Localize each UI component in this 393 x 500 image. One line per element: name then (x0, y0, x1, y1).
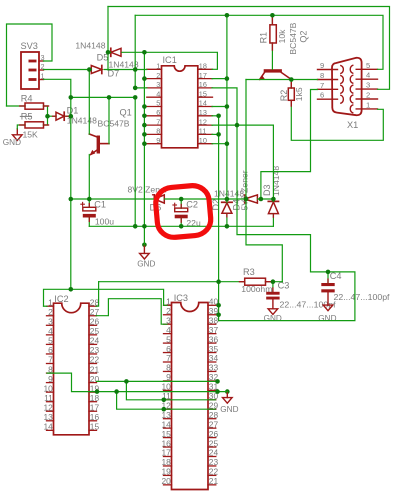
IC3 pin 22 (208, 474, 216, 476)
svg-text:SV3: SV3 (21, 41, 38, 51)
svg-text:22...47...100pf: 22...47...100pf (334, 292, 391, 302)
wire D3 bottom lead (272, 214, 274, 227)
junction at (226.9,226.3) (225, 224, 230, 229)
svg-text:7: 7 (48, 355, 53, 365)
wire C3 leads (272, 282, 274, 292)
wire Q1 emitter down to 8V2 rail (88, 155, 90, 200)
svg-text:17: 17 (199, 71, 207, 80)
IC2 pin 19 (89, 391, 97, 393)
IC3 pin 9 (164, 380, 172, 382)
IC3 pin 13 (164, 418, 172, 420)
wire W2 IC2 pin 20 row to IC3 pin 32 (97, 380, 218, 382)
red lead stubs of R1 (271, 18, 273, 25)
resistor R1 (270, 25, 276, 43)
IC1 pin 17 (198, 78, 213, 80)
IC3 pin 8 (164, 370, 172, 372)
IC1 pin 2 (147, 78, 162, 80)
IC3 pin 6 (164, 352, 172, 354)
IC2 pin 3 (47, 324, 54, 326)
svg-text:R2: R2 (279, 90, 289, 102)
junction at (218.6,134.4) (216, 132, 221, 137)
wire D3 feed vertical (272, 125, 274, 201)
wire IC2 pin 1 feed and row to IC3 pin 1 (44, 289, 71, 306)
IC2 pin 15 (89, 429, 97, 431)
svg-text:13: 13 (199, 108, 207, 117)
X1 pin 1 (356, 108, 377, 110)
wire IC1 pin 17 stub link (212, 78, 227, 80)
IC1 pin 4 (147, 96, 162, 98)
junction at (144.4,52.3) (142, 50, 147, 55)
junction at (70.8,97.4) (69, 95, 74, 100)
X1 pin 5 (356, 68, 377, 70)
capacitor C4 (321, 283, 334, 286)
IC1 pin 8 (147, 133, 162, 135)
IC3 pin 24 (208, 456, 216, 458)
junction at (144.4,125.1) (142, 123, 147, 128)
svg-text:1: 1 (156, 62, 160, 71)
svg-text:C1: C1 (94, 199, 106, 209)
wire D2 bottom lead (226, 213, 228, 226)
svg-text:C2: C2 (186, 200, 198, 210)
resistor R3 (245, 278, 266, 285)
diode D5 (110, 48, 112, 56)
resistor R2 (288, 88, 294, 100)
IC3 pin 26 (208, 437, 216, 439)
svg-text:5: 5 (156, 99, 160, 108)
junction at (144.4,115.8) (142, 114, 147, 119)
IC2 pin 1 (47, 305, 54, 307)
wire Q1 base from D7 row (88, 70, 90, 135)
junction at (218.6,305.3) (216, 303, 221, 308)
IC1 pin 3 (147, 87, 162, 89)
IC3 pin 28 (208, 418, 216, 420)
IC1 pin 1 (147, 68, 162, 70)
red lead stubs of R5 (20, 124, 25, 126)
svg-text:8: 8 (156, 127, 160, 136)
ground under bus B (142, 243, 147, 248)
X1 pin 2 (356, 98, 377, 100)
svg-text:5: 5 (48, 336, 53, 346)
diode D4 zener (244, 195, 246, 203)
wire SV3 pin 1 long vertical to IC2 pin 1 node (44, 79, 71, 289)
svg-text:D1: D1 (67, 105, 79, 115)
red lead stubs of R2 (290, 83, 292, 89)
junction at (163.8,409.2) (162, 407, 167, 412)
wire R2 leads and loop to X1 pin 1 (290, 80, 292, 89)
junction at (108,52.3) (106, 50, 111, 55)
diode D3 (268, 200, 278, 202)
wire C4 leads (327, 272, 329, 283)
svg-text:17: 17 (90, 402, 100, 412)
junction at (181.2,226.3) (179, 224, 184, 229)
SV3 pin 1 (29, 78, 37, 81)
wire ground row under C1 C2 D2 D3 (89, 225, 273, 227)
svg-text:9: 9 (48, 374, 53, 384)
IC IC1 body (162, 66, 198, 148)
IC2 pin 5 (47, 343, 54, 345)
wire node row at y=97 from D1 net to mid vertical (71, 96, 135, 98)
diode D2 (222, 201, 232, 203)
svg-text:23: 23 (90, 345, 100, 355)
IC3 pin 40 (208, 304, 216, 306)
IC2 pin 11 (47, 401, 54, 403)
diode D7 (91, 66, 102, 74)
svg-text:8: 8 (320, 71, 324, 80)
IC3 pin 27 (208, 427, 216, 429)
junction at (218.6,314.8) (216, 313, 221, 318)
wire ground bus B vertical (143, 52, 145, 245)
wire IC2 pin 27 route to IC3 pin 3 (96, 299, 167, 325)
wire second top rail to X1 pin 5 (135, 15, 383, 69)
red lead stubs of C1 (88, 204, 90, 208)
IC1 pin 9 (147, 143, 162, 145)
wire bus A vertical down to IC1 pin 3 (135, 15, 147, 88)
IC3 pin 19 (164, 474, 172, 476)
wire V_b vertical from top rail to D2 (226, 15, 228, 202)
IC1 pin 18 (198, 68, 213, 70)
svg-text:1N4148: 1N4148 (75, 41, 105, 51)
IC2 pin 27 (89, 315, 97, 317)
svg-text:3: 3 (366, 81, 370, 90)
svg-text:2: 2 (156, 71, 160, 80)
wire IC1 pin 11 stub link (212, 133, 219, 135)
IC3 pin 31 (208, 389, 216, 391)
svg-text:16: 16 (199, 80, 207, 89)
wire IC1 pin 13 stub link (212, 115, 219, 117)
junction at (70.8,289.3) (69, 287, 74, 292)
IC2 pin 8 (47, 372, 54, 374)
junction at (226.9,78.6) (225, 76, 230, 81)
IC3 pin 33 (208, 370, 216, 372)
svg-text:6: 6 (48, 345, 53, 355)
svg-text:15: 15 (199, 89, 207, 98)
IC3 pin 12 (164, 408, 172, 410)
svg-text:D5: D5 (97, 53, 109, 63)
junction at (70.8,116.2) (69, 114, 74, 119)
IC3 pin 5 (164, 342, 172, 344)
red lead stub of C3 top (272, 288, 274, 292)
wire top rail from upper-left corner to X1 pin 3 (108, 7, 390, 90)
svg-text:GND: GND (220, 405, 238, 414)
junction at (135.2,97.4) (133, 95, 138, 100)
junction at (89.3,69.5) (87, 67, 92, 72)
svg-text:3: 3 (156, 80, 160, 89)
ground under C3 (272, 299, 274, 308)
svg-text:IC2: IC2 (54, 294, 68, 304)
diode D1 (56, 112, 64, 120)
junction at (217.5,391.6) (215, 389, 220, 394)
transistor Q2 (264, 69, 282, 72)
wire R4 leads and R4-R5-D1 junction (7, 105, 26, 107)
junction at (291.3,79.5) (289, 77, 294, 82)
IC IC2 body (54, 303, 90, 435)
svg-text:11: 11 (44, 393, 53, 403)
wire V_r vertical from bottom rail up to IC1 pin 13 (218, 116, 220, 321)
connector SV3 (21, 52, 39, 89)
IC2 pin 23 (89, 353, 97, 355)
IC1 pin 7 (147, 124, 162, 126)
svg-text:2: 2 (366, 91, 370, 100)
IC3 pin 32 (208, 380, 216, 382)
junction at (226.9,143.7) (225, 141, 230, 146)
IC1 pin 15 (198, 96, 213, 98)
svg-text:18: 18 (199, 62, 207, 71)
svg-text:20: 20 (161, 476, 171, 486)
red lead stubs of R3 (240, 281, 245, 283)
wire IC1 pin 10 stub link (212, 143, 227, 145)
X1 pin 3 (356, 88, 377, 90)
svg-text:1k5: 1k5 (294, 87, 304, 101)
svg-text:10: 10 (43, 383, 53, 393)
IC2 pin 18 (89, 401, 97, 403)
svg-text:GND: GND (318, 314, 336, 323)
IC1 pin 12 (198, 124, 213, 126)
wire Q2 emitter row to X1 pin 8 (246, 79, 318, 81)
junction at (260.9,199) (259, 197, 264, 202)
wire mid vertical down to ground row (134, 97, 136, 226)
svg-text:12: 12 (43, 402, 53, 412)
svg-text:GND: GND (137, 260, 155, 269)
capacitor C1 electrolytic (83, 207, 96, 211)
svg-text:7: 7 (320, 81, 324, 90)
X1 pin 7 (318, 88, 338, 90)
IC1 pin 11 (198, 133, 213, 135)
SV3 pin 2 (29, 69, 37, 72)
transistor Q1 (97, 136, 100, 154)
IC3 pin 25 (208, 446, 216, 448)
svg-text:R1: R1 (259, 32, 269, 44)
svg-text:12: 12 (199, 117, 207, 126)
IC2 pin 28 (89, 305, 97, 307)
svg-text:3: 3 (48, 317, 53, 327)
svg-text:10k: 10k (277, 29, 287, 44)
junction at (144.4,143.7) (142, 141, 147, 146)
IC3 pin 35 (208, 352, 216, 354)
IC3 pin 16 (164, 446, 172, 448)
IC2 pin 14 (47, 429, 54, 431)
wire SV3 pin2 / D7 row to IC1 pin 1 (44, 69, 92, 71)
svg-text:1N4148: 1N4148 (271, 166, 281, 196)
IC3 pin 17 (164, 456, 172, 458)
zener diode D6 (153, 195, 155, 203)
svg-text:25: 25 (90, 326, 100, 336)
red lead stubs of D3 (272, 214, 274, 218)
IC3 pin 2 (164, 314, 172, 316)
wire IC1 pin 16 route down and right loop to C4 and bottom rail (212, 88, 355, 321)
red annotation circle around C2 (154, 184, 212, 238)
IC3 pin 1 (164, 304, 172, 306)
junction at (89.3,199) (87, 197, 92, 202)
svg-text:GND: GND (264, 314, 282, 323)
IC3 pin 20 (164, 484, 172, 486)
IC1 pin 10 (198, 143, 213, 145)
svg-text:13: 13 (43, 412, 53, 422)
IC2 pin 4 (47, 334, 54, 336)
wire D4 anode to X1 pin 7 (261, 90, 318, 200)
connector X1 DB9 body (332, 58, 362, 115)
IC3 pin 3 (164, 323, 172, 325)
svg-text:1: 1 (366, 100, 370, 109)
IC2 pin 20 (89, 382, 97, 384)
IC3 pin 23 (208, 465, 216, 467)
IC2 pin 25 (89, 334, 97, 336)
junction at (135.2,87.9) (133, 86, 138, 91)
wire C2 leads (180, 199, 182, 208)
IC2 pin 26 (89, 324, 97, 326)
svg-text:GND: GND (3, 138, 21, 147)
IC2 pin 24 (89, 343, 97, 345)
wire IC2 pin 28 riser to R3 row (96, 282, 99, 307)
IC3 pin 36 (208, 342, 216, 344)
svg-text:16: 16 (90, 412, 100, 422)
svg-text:10: 10 (199, 136, 207, 145)
IC2 pin 9 (47, 382, 54, 384)
IC IC3 body (172, 303, 209, 490)
junction at (47.5,116.2) (45, 114, 50, 119)
wire R5 left lead to GND (17, 125, 25, 129)
IC3 pin 21 (208, 484, 216, 486)
junction at (163.8,399.8) (162, 398, 167, 403)
IC2 pin 16 (89, 420, 97, 422)
wire D5 cathode vertical from top rail (107, 7, 109, 71)
svg-text:15: 15 (90, 422, 100, 432)
red lead stubs of C2 (180, 204, 182, 208)
junction at (144.4,106.5) (142, 104, 147, 109)
svg-text:14: 14 (43, 422, 53, 432)
IC3 pin 29 (208, 408, 216, 410)
junction at (144.4,78.6) (142, 76, 147, 81)
junction at (273.4,199) (271, 197, 276, 202)
junction at (272.9,281.7) (271, 279, 276, 284)
IC2 pin 12 (47, 410, 54, 412)
wire W3 branch down to IC3 pin 30 row (126, 381, 215, 399)
IC3 pin 39 (208, 314, 216, 316)
ground under R5 (16, 129, 18, 135)
svg-text:5V6 Zener: 5V6 Zener (240, 170, 250, 210)
red lead stubs of D2 (226, 213, 228, 217)
svg-text:9: 9 (156, 136, 160, 145)
IC1 pin 6 (147, 115, 162, 117)
junction at (217.5,381.4) (215, 379, 220, 384)
IC2 pin 21 (89, 372, 97, 374)
X1 pin 4 (356, 78, 377, 80)
IC1 pin 5 (147, 106, 162, 108)
svg-text:X1: X1 (347, 120, 358, 130)
X1 pin 9 (318, 69, 338, 71)
X1 pin 8 (318, 79, 338, 81)
svg-text:BC547B: BC547B (98, 119, 130, 129)
ground near IC3 pin 31 (225, 389, 230, 394)
X1 pin 6 (318, 98, 338, 100)
svg-text:IC1: IC1 (163, 55, 177, 65)
IC3 pin 10 (164, 389, 172, 391)
svg-text:22: 22 (90, 355, 100, 365)
svg-text:1: 1 (48, 297, 53, 307)
junction at (144.4,134.4) (142, 132, 147, 137)
svg-text:2: 2 (48, 307, 53, 317)
red lead stubs of R4 (20, 105, 25, 107)
svg-text:Q1: Q1 (120, 107, 132, 117)
svg-text:14: 14 (199, 99, 207, 108)
svg-text:21: 21 (209, 476, 219, 486)
wire W1 branch down to IC3 pin 29 row (117, 392, 216, 410)
svg-text:R3: R3 (243, 267, 255, 277)
svg-text:Q2: Q2 (298, 31, 308, 43)
IC3 pin 34 (208, 361, 216, 363)
svg-text:BC547B: BC547B (288, 22, 298, 54)
svg-text:9: 9 (320, 61, 324, 70)
svg-text:26: 26 (90, 317, 100, 327)
IC2 pin 13 (47, 420, 54, 422)
IC3 pin 7 (164, 361, 172, 363)
IC2 pin 2 (47, 315, 54, 317)
junction at (226.9,106.5) (225, 104, 230, 109)
junction at (116.6,391.6) (114, 389, 119, 394)
IC2 pin 10 (47, 391, 54, 393)
wire IC1 pin 14 stub link (212, 106, 227, 108)
svg-text:IC3: IC3 (174, 293, 188, 303)
resistor R4 (25, 103, 44, 109)
IC1 pin 13 (198, 115, 213, 117)
junction at (246,199) (244, 197, 249, 202)
IC1 pin 14 (198, 106, 213, 108)
svg-text:7: 7 (156, 117, 160, 126)
wire D5 row to ground bus and IC1 pin 18 (108, 51, 110, 53)
junction at (226.9,15.3) (225, 13, 230, 18)
wire R3 row (99, 281, 245, 283)
svg-text:4: 4 (366, 71, 370, 80)
junction at (237,125.1) (235, 123, 240, 128)
wire R1 leads (271, 15, 273, 24)
junction at (144.4,226.3) (142, 224, 147, 229)
wire IC1 pin 12 row to D3 feed (212, 124, 273, 126)
junction at (272.4,15.3) (270, 13, 275, 18)
junction at (109,97.4) (107, 95, 112, 100)
junction at (218.6,115.8) (216, 114, 221, 119)
svg-text:18: 18 (90, 393, 100, 403)
svg-text:R4: R4 (21, 93, 33, 103)
IC3 pin 4 (164, 333, 172, 335)
red lead stub of C4 top (327, 279, 329, 283)
IC3 pin 11 (164, 399, 172, 401)
svg-text:21: 21 (90, 364, 100, 374)
capacitor C2 electrolytic (175, 208, 188, 212)
junction at (135.2,226.3) (133, 224, 138, 229)
IC2 pin 17 (89, 410, 97, 412)
SV3 pin 3 (29, 60, 37, 63)
svg-text:5: 5 (366, 61, 370, 70)
resistor R5 (25, 122, 44, 128)
junction at (226.9,199) (225, 197, 230, 202)
IC3 pin 38 (208, 323, 216, 325)
IC1 pin 16 (198, 87, 213, 89)
IC3 pin 18 (164, 465, 172, 467)
junction at (328,271.9) (326, 270, 331, 275)
wire Q1 collector riser (108, 97, 110, 143)
svg-text:20: 20 (90, 374, 100, 384)
IC3 pin 15 (164, 437, 172, 439)
junction at (218.6,281.7) (216, 279, 221, 284)
wire D1 anode/cathode leads (48, 115, 57, 117)
svg-text:100u: 100u (95, 216, 114, 226)
wire C1 leads (88, 199, 90, 207)
IC2 pin 22 (89, 363, 97, 365)
IC3 pin 37 (208, 333, 216, 335)
capacitor C3 (266, 292, 279, 295)
IC2 pin 7 (47, 363, 54, 365)
svg-text:4: 4 (48, 326, 53, 336)
wire Q2 emitter riser down through D4 to R3 row (246, 80, 282, 282)
